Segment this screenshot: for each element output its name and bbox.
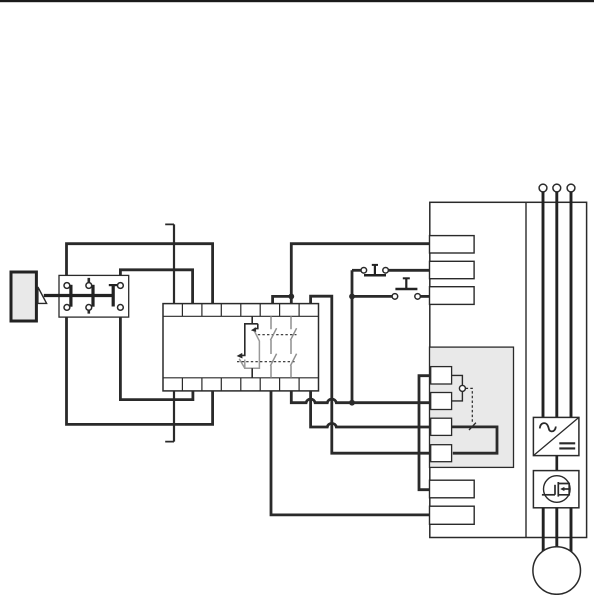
junction dot bus to STO wire [349, 400, 355, 406]
wire E-stop pole1 bottom to relay bottom terminal 3 [67, 310, 213, 424]
wire start button left lead [352, 295, 392, 298]
wire stop button left lead [352, 269, 361, 272]
three-phase input lines [543, 192, 571, 418]
wire start button right lead to drive input 3 [420, 295, 430, 298]
E-stop actuator triangle [38, 287, 47, 303]
wire relay bottom terminal 7 to STO terminal 2 (with hops) [291, 391, 431, 403]
safety relay block body [163, 304, 319, 391]
relay internal actuator linkage [237, 316, 260, 378]
E-stop pole 1 moving contact [69, 285, 72, 307]
wire relay terminal S12 up-over to drive digital input 1 [291, 244, 430, 304]
wire relay bottom terminal 8 to STO terminal 3 (with hop) [311, 391, 432, 427]
wire vertical bus from buttons to junction [351, 270, 354, 402]
STO terminal 4 [431, 445, 452, 462]
E-stop mechanical bar [44, 294, 113, 297]
STO terminal 1 [431, 367, 452, 384]
wire relay bottom terminal 6 long run to drive common terminal [271, 391, 431, 515]
DC bus link [555, 456, 558, 471]
drive lower terminal A [430, 480, 475, 498]
wire stop button right lead to drive input 2 [388, 269, 430, 272]
drive input terminal block 3 [430, 287, 475, 305]
E-stop pole 2 moving contact [91, 285, 94, 307]
STO coil links [452, 375, 463, 401]
E-stop pole 3 moving contact (NO) [109, 285, 118, 307]
junction dot S12/S22 [288, 294, 294, 300]
E-stop switch block body [59, 275, 129, 317]
junction dot start-stop bus [349, 294, 355, 300]
drive input terminal block 2 [430, 261, 475, 278]
relay internal dashed linkage lines [237, 335, 297, 362]
motor output lines [543, 508, 571, 556]
E-stop pole 2 terminal stubs [88, 278, 91, 314]
motor [533, 547, 581, 595]
wire E-stop pole3 bottom to relay bottom terminal 2 [120, 310, 192, 400]
STO terminal 3 [431, 418, 452, 435]
STO gate loop wire [452, 427, 497, 453]
STO option gray module [430, 347, 514, 467]
STO dashed linkage [466, 388, 473, 423]
STO terminal 2 [431, 393, 452, 410]
drive enclosure [430, 202, 587, 537]
drive lower terminal B [430, 506, 475, 524]
stop pushbutton (NC) [361, 265, 388, 275]
E-stop operator body [11, 272, 36, 321]
wire branch relay terminal S22 to junction [273, 296, 292, 303]
drive internal divider [525, 202, 527, 537]
IGBT inverter block [533, 471, 579, 508]
STO gate interrupt slash [469, 423, 476, 430]
wire hooked vertical line at x=174 (passes behind relay) [165, 224, 174, 441]
wire E-stop NC pole1 top to relay terminal A1 [67, 244, 213, 304]
start pushbutton (NO) [392, 278, 420, 299]
wire relay output terminal 13 jog down right side to STO terminal 4 [311, 296, 431, 453]
three-phase input terminals [539, 184, 575, 192]
relay safety contact K2 [290, 316, 296, 378]
page top rule [0, 0, 594, 2]
rectifier converter block [533, 417, 579, 455]
wire STO terminal 1 loop down to drive terminal A [419, 376, 432, 490]
E-stop contact terminals (circles) [64, 283, 123, 311]
relay safety contact K1 [270, 316, 276, 378]
wire E-stop NC pole3 top to relay terminal A2 [120, 270, 192, 304]
drive input terminal block 1 [430, 236, 475, 253]
STO coil circle [459, 385, 465, 391]
